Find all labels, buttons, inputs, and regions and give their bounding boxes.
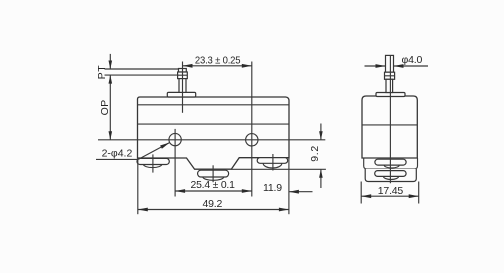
dimension 9.2 arrows [320, 124, 322, 140]
terminal right washer [263, 159, 282, 168]
plunger centerline [182, 62, 184, 113]
svg-text:25.4 ± 0.1: 25.4 ± 0.1 [191, 179, 236, 191]
dimension 25.4 +/- 0.1 [175, 190, 252, 192]
terminal middle washer [203, 174, 224, 181]
svg-text:23.3 ± 0.25: 23.3 ± 0.25 [195, 55, 241, 67]
side pin lower [386, 79, 393, 92]
PT upper reference line [105, 68, 179, 70]
terminal middle screw head [198, 170, 229, 177]
svg-text:PT: PT [96, 65, 108, 80]
hole axis / OP reference line [98, 139, 325, 141]
terminal left screw head [137, 158, 169, 164]
svg-text:2-φ4.2: 2-φ4.2 [102, 148, 133, 160]
left hole centerline / extension [174, 129, 176, 197]
dimension 23.3 +/- 0.25 [183, 65, 252, 67]
extension line body left edge [137, 158, 139, 214]
dimension phi 4.0 [365, 65, 386, 67]
plunger pin lower (front) [179, 79, 186, 93]
plunger collar (front) [178, 72, 188, 79]
side collar [385, 72, 395, 79]
PT upper arrow [109, 54, 111, 69]
PT lower reference line [105, 74, 179, 76]
terminal left slot line [152, 154, 154, 172]
dimension 17.45 [360, 182, 362, 204]
svg-text:OP: OP [99, 99, 111, 115]
terminal right slot line [272, 154, 274, 171]
OP dimension line with arrows [109, 75, 111, 140]
plunger flange (front) [167, 92, 195, 97]
side body seam [362, 124, 417, 126]
svg-text:11.9: 11.9 [263, 182, 282, 194]
terminal left washer [143, 161, 161, 168]
side collar midline [385, 75, 395, 77]
side pin cap [386, 55, 394, 72]
side view body [362, 96, 417, 158]
svg-text:17.45: 17.45 [378, 185, 404, 197]
mounting hole left [169, 133, 181, 145]
plunger collar midline (front) [178, 74, 188, 76]
front body seam line lower [138, 123, 290, 125]
side base step 1 [364, 158, 418, 169]
side base step 2 [365, 169, 416, 182]
front view body outline [138, 97, 290, 169]
side terminal screw 2 [375, 171, 406, 177]
extension line body right edge [288, 158, 290, 215]
svg-text:49.2: 49.2 [203, 198, 223, 210]
side flange [376, 93, 405, 97]
front body seam line upper [138, 104, 290, 106]
mounting hole right [246, 134, 258, 146]
bottom surface extension line for 9.2 [231, 168, 326, 170]
svg-text:φ4.0: φ4.0 [402, 54, 423, 66]
side terminal washer 2 [383, 173, 398, 179]
svg-text:9.2: 9.2 [309, 145, 321, 162]
side terminal screw 1 [375, 159, 406, 165]
terminal middle slot line [212, 165, 214, 182]
side terminal washer 1 [384, 162, 399, 168]
dimension 49.2 [138, 209, 289, 211]
plunger pin cap (front) [179, 69, 187, 73]
right hole centerline / extension [251, 62, 253, 197]
side view centerline [389, 55, 391, 183]
terminal right screw head [257, 158, 288, 164]
